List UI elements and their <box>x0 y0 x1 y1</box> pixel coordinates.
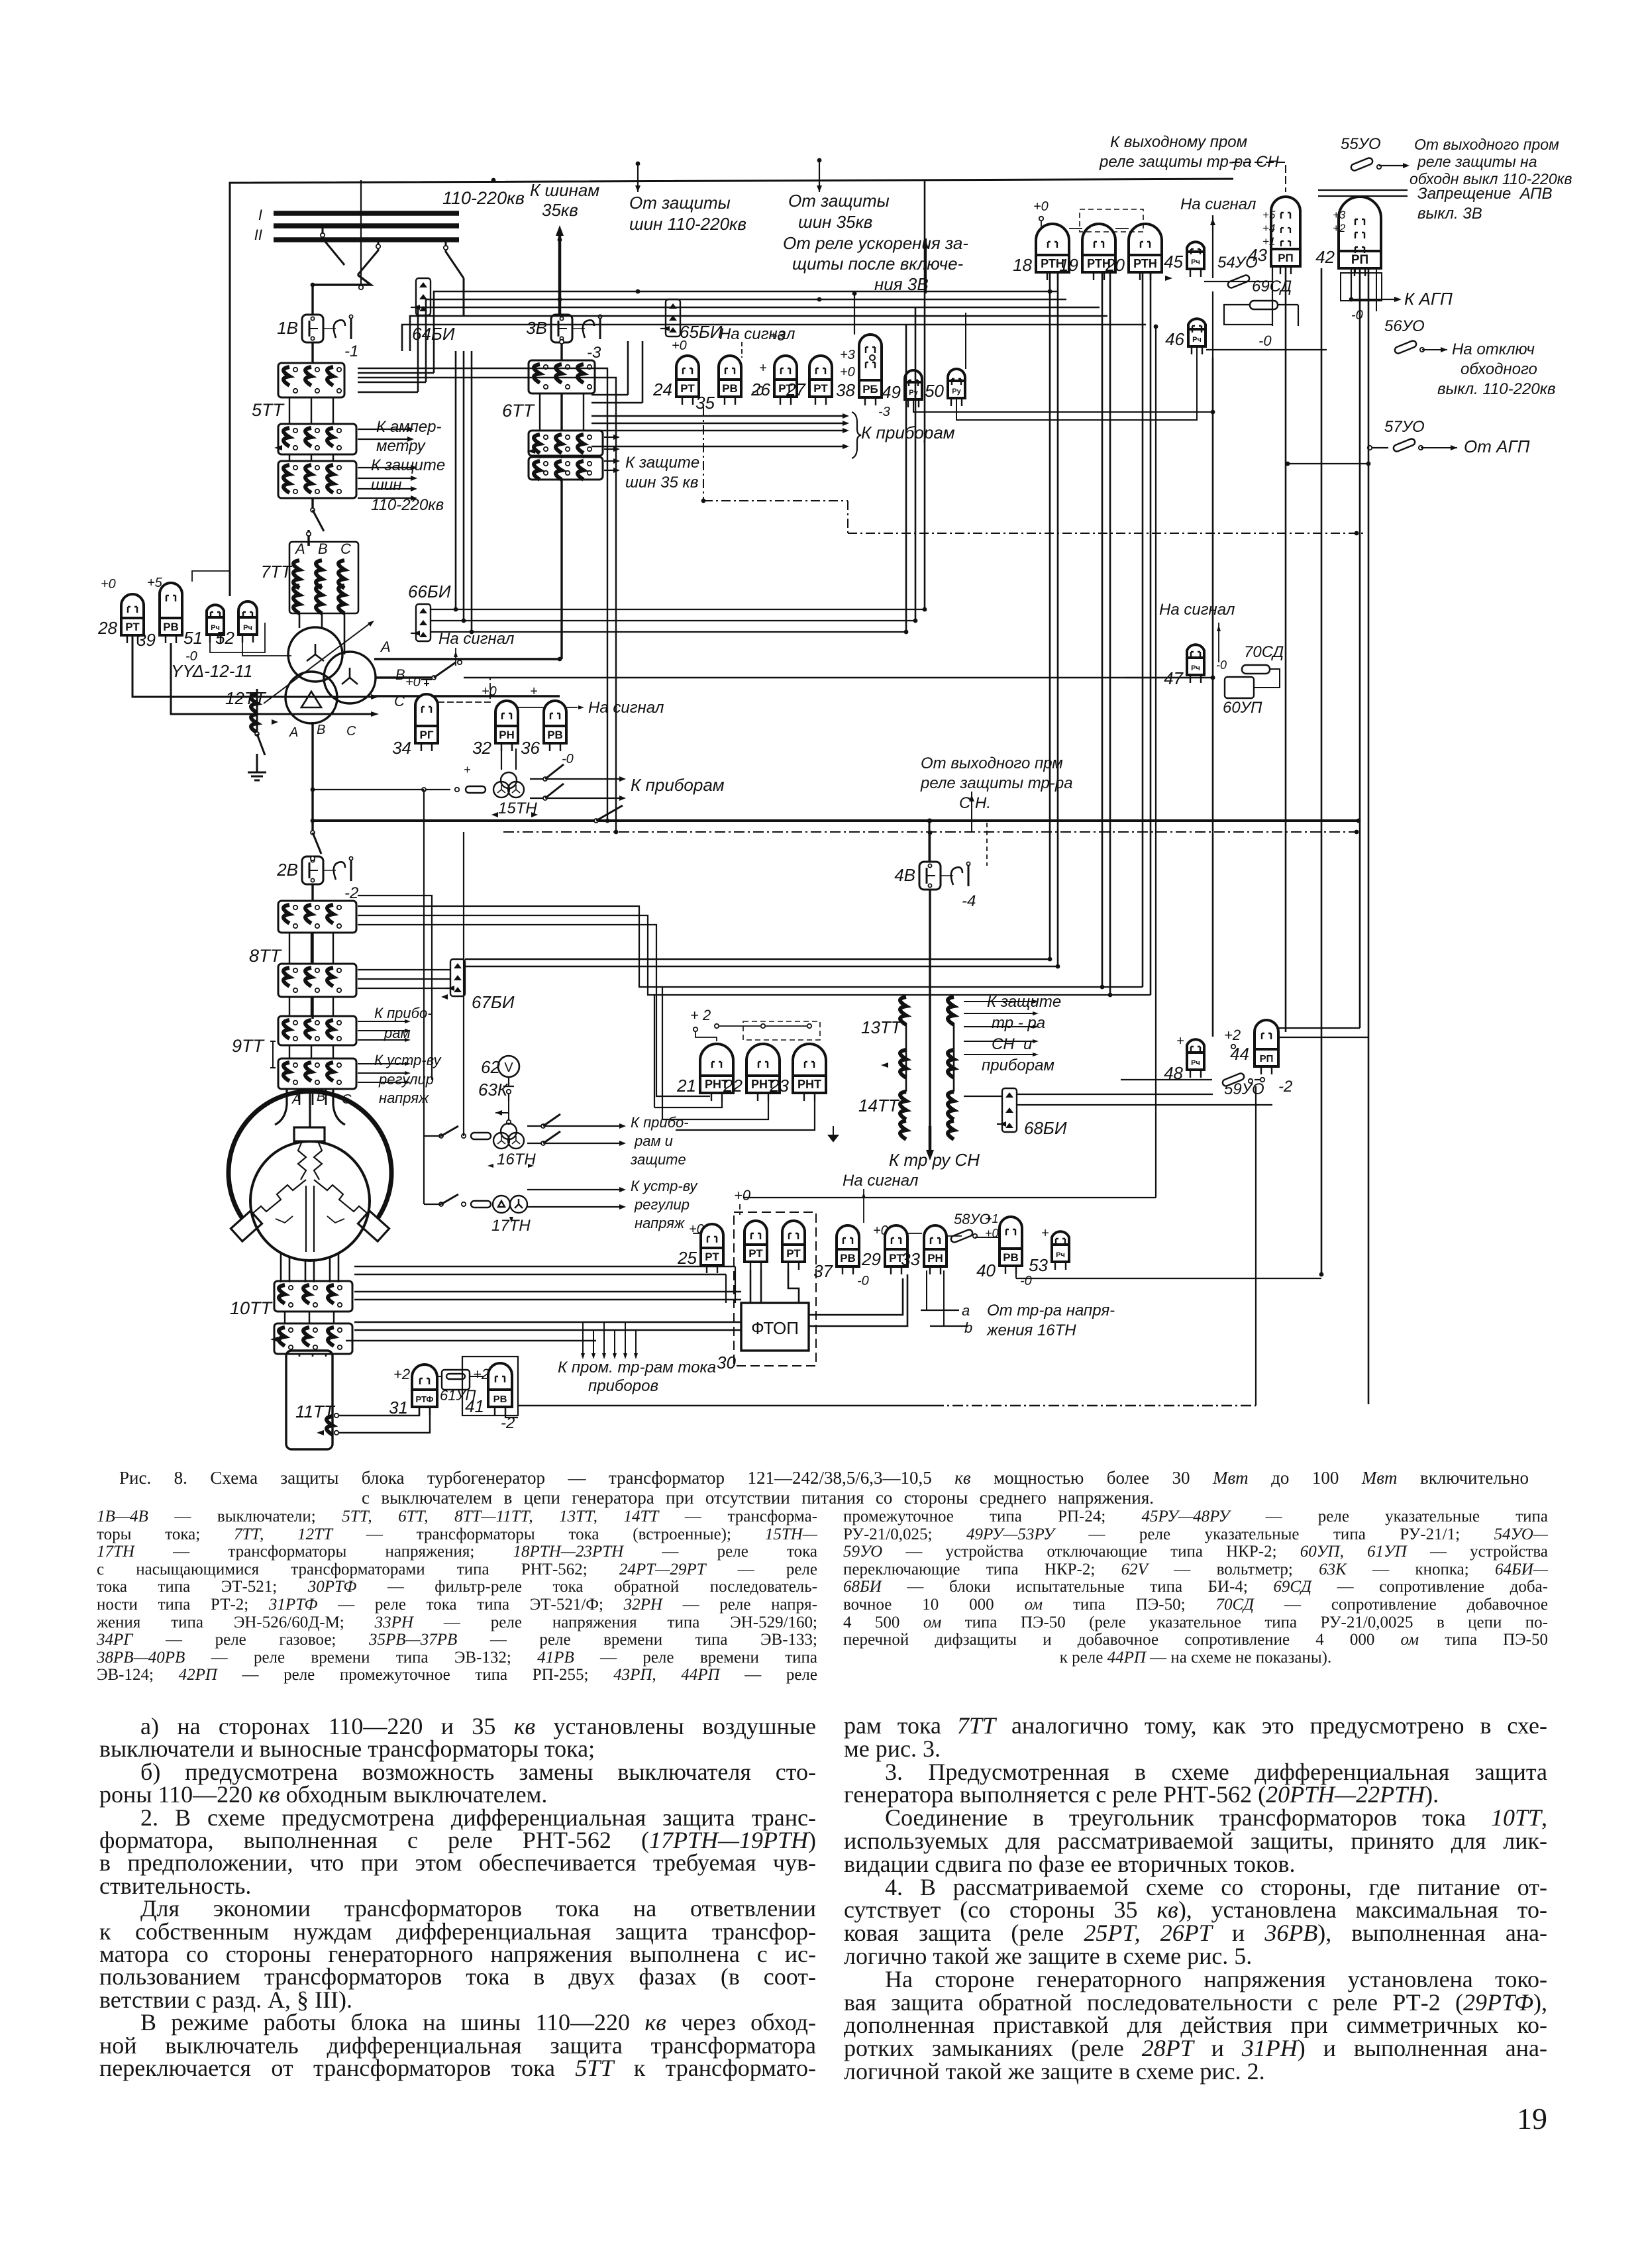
wire <box>558 233 562 316</box>
arrowhead <box>669 327 677 333</box>
wire <box>311 933 312 964</box>
arrowhead <box>619 796 626 801</box>
svg-text:шин: шин <box>371 476 401 494</box>
wire <box>1379 165 1404 166</box>
terminal <box>462 1134 466 1138</box>
CT row 5ТТ primary <box>278 363 344 397</box>
wire <box>358 1072 405 1074</box>
generator G stator <box>229 1090 391 1282</box>
svg-text:52: 52 <box>215 628 234 648</box>
arrowhead <box>1403 163 1410 168</box>
terminal <box>566 435 570 439</box>
svg-text:67БИ: 67БИ <box>472 992 515 1012</box>
arrowhead <box>495 1110 502 1115</box>
long trunk wires to RNT group <box>465 958 1050 960</box>
wire <box>583 393 584 431</box>
junction <box>817 297 822 302</box>
wire <box>1121 1079 1212 1080</box>
wire <box>402 325 1146 351</box>
wire <box>354 1291 741 1293</box>
relay РНТ22 <box>746 1044 780 1101</box>
svg-text:45: 45 <box>1164 252 1183 272</box>
wire <box>285 1080 424 1082</box>
svg-text:РВ: РВ <box>840 1252 856 1264</box>
arrowhead <box>623 1353 627 1359</box>
arrowhead <box>371 694 379 699</box>
wire <box>465 966 1058 968</box>
terminal <box>311 858 314 862</box>
wire <box>907 1233 922 1234</box>
resistor <box>471 1201 491 1208</box>
terminal <box>293 429 297 433</box>
svg-text:+0: +0 <box>405 675 421 690</box>
svg-text:+4: +4 <box>1262 222 1275 234</box>
busbar system I/II 110-220kV <box>274 211 459 216</box>
arrowhead <box>407 437 414 442</box>
junction <box>1357 819 1361 823</box>
svg-text:РТ: РТ <box>680 382 695 395</box>
wire <box>344 613 346 654</box>
svg-text:-0: -0 <box>857 1274 869 1288</box>
svg-text:19: 19 <box>1059 255 1078 275</box>
svg-text:С Н.: С Н. <box>959 794 991 812</box>
junction <box>701 499 706 503</box>
svg-text:А: А <box>380 639 391 655</box>
terminal <box>288 627 342 682</box>
wire <box>311 997 312 1016</box>
svg-text:51: 51 <box>183 628 203 648</box>
wire <box>1115 228 1129 229</box>
terminal <box>966 862 970 865</box>
arrowhead <box>613 468 620 473</box>
svg-text:РВ: РВ <box>163 621 179 633</box>
control wiring trunk bundle <box>434 291 1058 373</box>
wire <box>604 448 615 450</box>
wire <box>289 933 290 964</box>
feeder to auxiliary transformer <box>929 1126 932 1153</box>
junction <box>1319 1272 1324 1277</box>
terminal <box>349 315 352 318</box>
arrowhead <box>926 1150 934 1160</box>
wire <box>313 275 371 316</box>
svg-text:14ТТ: 14ТТ <box>858 1096 900 1115</box>
CT row 8ТТ row1 <box>278 901 356 933</box>
wire <box>915 307 917 621</box>
wire <box>929 832 931 862</box>
svg-text:+: + <box>1041 1226 1049 1241</box>
wire <box>256 754 258 763</box>
terminal <box>313 1303 317 1307</box>
svg-text:К приборам: К приборам <box>861 423 955 442</box>
wires relay cluster to 12TT <box>132 635 372 697</box>
svg-text:реле защиты тр-ра СН: реле защиты тр-ра СН <box>1099 153 1280 171</box>
arrowhead <box>454 651 458 657</box>
wire <box>1017 1094 1213 1095</box>
terminal <box>1039 217 1043 221</box>
svg-text:РТ: РТ <box>786 1247 801 1260</box>
svg-text:Рч: Рч <box>1056 1251 1065 1259</box>
terminal <box>337 968 341 972</box>
wire <box>676 1101 815 1130</box>
terminal <box>761 1024 765 1028</box>
terminal <box>338 1345 342 1349</box>
dash-dot section divider <box>703 407 704 501</box>
wire <box>971 792 972 832</box>
relay Рч47 <box>1187 644 1204 683</box>
test block 64БИ <box>416 278 431 315</box>
wire <box>1355 268 1356 273</box>
arrowhead <box>405 1071 411 1075</box>
arrowhead <box>419 282 427 287</box>
junction <box>1355 830 1359 835</box>
svg-text:I: I <box>258 207 262 223</box>
svg-text:СН и: СН и <box>992 1035 1032 1053</box>
svg-text:30: 30 <box>717 1353 736 1372</box>
svg-text:К шинам: К шинам <box>530 180 599 200</box>
box <box>358 1211 389 1241</box>
wire <box>1150 272 1152 995</box>
terminal <box>588 365 591 369</box>
terminal <box>285 672 337 723</box>
svg-text:От тр-ра напря-: От тр-ра напря- <box>987 1302 1115 1319</box>
wire <box>517 707 545 708</box>
arrowhead <box>669 315 677 321</box>
terminal <box>1260 1078 1264 1082</box>
RNT bottom rails <box>654 1101 722 1108</box>
svg-text:b: b <box>964 1319 972 1336</box>
wire <box>358 378 616 832</box>
wire <box>591 402 642 404</box>
wire <box>358 978 450 980</box>
13TT outputs <box>964 1001 1033 1002</box>
arrowhead <box>613 435 620 440</box>
wire <box>975 1237 1000 1238</box>
terminal <box>541 1124 545 1128</box>
page number <box>1517 2104 1547 2134</box>
junction <box>311 819 315 823</box>
box <box>462 1357 518 1416</box>
wire <box>854 293 855 335</box>
wire <box>424 1135 441 1137</box>
svg-text:+1: +1 <box>985 1212 999 1225</box>
wire <box>299 1354 301 1357</box>
wire <box>284 1312 285 1323</box>
terminal <box>560 340 564 344</box>
breaker 4В <box>919 862 941 890</box>
wire <box>410 316 1107 351</box>
svg-text:43: 43 <box>1248 245 1267 265</box>
junction <box>928 831 933 835</box>
svg-text:РП: РП <box>1351 253 1368 267</box>
wire <box>591 430 843 431</box>
svg-text:20: 20 <box>1105 255 1125 275</box>
wire <box>848 533 1364 534</box>
svg-text:6ТТ: 6ТТ <box>502 401 536 421</box>
generator stator windings <box>298 1141 322 1180</box>
wire <box>527 1189 619 1190</box>
legend left column <box>97 1508 817 1525</box>
junction <box>1108 993 1113 998</box>
svg-text:26: 26 <box>750 380 770 399</box>
svg-text:+3: +3 <box>840 348 855 362</box>
wire <box>495 1112 509 1113</box>
svg-text:реле защиты на: реле защиты на <box>1417 153 1537 170</box>
junction <box>558 657 562 662</box>
junction <box>605 819 610 823</box>
svg-text:К пром. тр-рам тока: К пром. тр-рам тока <box>558 1359 716 1376</box>
relay Рч48 <box>1187 1039 1204 1078</box>
terminal <box>337 905 341 909</box>
svg-text:+0: +0 <box>873 1223 888 1238</box>
wire <box>358 969 450 970</box>
wire <box>418 307 1100 392</box>
terminal <box>458 660 462 664</box>
svg-text:23: 23 <box>769 1076 789 1096</box>
wire <box>1109 272 1111 995</box>
svg-text:110-220кв: 110-220кв <box>371 496 444 514</box>
arrowhead <box>669 303 677 309</box>
wire <box>321 613 323 629</box>
svg-text:Запрещение АПВ: Запрещение АПВ <box>1417 185 1553 203</box>
terminal <box>293 1080 297 1084</box>
terminal <box>315 968 319 972</box>
relay РТФ31 <box>412 1365 437 1415</box>
wire <box>354 1321 741 1323</box>
terminal <box>544 435 548 439</box>
junction <box>614 830 619 835</box>
body text right column <box>844 1714 1547 1737</box>
svg-text:РП: РП <box>1278 252 1294 264</box>
terminal <box>560 336 563 340</box>
svg-text:К выходному пром: К выходному пром <box>1110 133 1247 151</box>
wire <box>431 609 925 610</box>
terminal <box>560 317 563 320</box>
svg-text:38: 38 <box>836 380 855 400</box>
wire <box>358 915 648 958</box>
wire <box>274 237 459 242</box>
arrowhead <box>843 413 849 419</box>
relay Ру49 <box>905 370 922 407</box>
relay РТ24 <box>676 356 699 405</box>
terminal <box>293 924 297 928</box>
svg-text:-4: -4 <box>962 892 976 910</box>
svg-text:-0: -0 <box>1351 308 1363 323</box>
arrowhead <box>531 812 538 817</box>
device 54УО <box>1227 274 1250 289</box>
wire <box>1321 268 1323 1274</box>
svg-text:РТ: РТ <box>748 1247 763 1260</box>
CT 7TT (built-in) <box>289 542 358 613</box>
terminal <box>321 233 325 237</box>
wire <box>464 677 1213 679</box>
junction <box>558 297 562 302</box>
CT row 10ТТ row2 <box>274 1323 352 1354</box>
body text left column <box>99 1714 816 1738</box>
breaker 3В <box>551 315 572 342</box>
relay РТН19 <box>1082 224 1115 280</box>
arrowhead <box>419 294 427 299</box>
relay РВ41 <box>488 1363 512 1415</box>
wire <box>593 1330 594 1355</box>
CT row 5ТТ secondary 2 <box>278 461 356 498</box>
terminal <box>337 389 341 393</box>
top protection source labels <box>637 162 639 192</box>
wire <box>431 631 906 633</box>
svg-text:шин 110-220кв: шин 110-220кв <box>629 214 746 234</box>
generator terminal box <box>294 1127 325 1141</box>
arrowhead <box>619 776 626 782</box>
svg-text:На сигнал: На сигнал <box>843 1172 919 1190</box>
wire <box>325 1354 327 1357</box>
relay Рч45 <box>1187 242 1204 277</box>
arrowhead <box>602 1353 606 1359</box>
arrowhead <box>923 241 929 248</box>
arrowhead <box>411 476 417 481</box>
arrowhead <box>843 428 849 433</box>
wire <box>358 1082 405 1083</box>
arrowhead <box>419 632 427 637</box>
svg-text:-0: -0 <box>1258 333 1272 349</box>
arrowhead <box>270 1337 278 1342</box>
16TN outputs <box>527 1125 619 1127</box>
relay РТН20 <box>1129 224 1162 280</box>
arrowhead <box>371 711 379 717</box>
svg-text:ФТОП: ФТОП <box>751 1318 799 1338</box>
terminal <box>337 1021 341 1025</box>
relay row output wires to devices <box>591 415 843 417</box>
terminal <box>315 490 319 493</box>
svg-text:+0: +0 <box>482 684 497 699</box>
wire <box>662 1101 768 1119</box>
svg-text:+0: +0 <box>689 1222 704 1237</box>
arrowhead <box>1005 1123 1013 1128</box>
svg-text:РНТ: РНТ <box>797 1078 821 1091</box>
svg-text:22: 22 <box>723 1076 743 1096</box>
junction <box>923 607 927 612</box>
relay РВ40 <box>1000 1217 1022 1274</box>
junction <box>1366 462 1371 466</box>
device 59УО <box>1221 1072 1245 1087</box>
wire <box>358 1030 405 1031</box>
terminal <box>293 968 297 972</box>
terminal <box>293 368 297 372</box>
wire <box>964 1041 1033 1042</box>
terminal <box>293 1037 297 1041</box>
terminal <box>293 490 297 493</box>
wire <box>847 501 848 533</box>
wire <box>943 1270 945 1326</box>
CT row 8ТТ row2 <box>278 964 356 997</box>
CT row 6ТТ secondary 1 <box>529 431 603 456</box>
wire <box>358 1063 405 1064</box>
-0 rail from relay row to vertical 1995 <box>1015 1266 1017 1278</box>
svg-text:РТ: РТ <box>813 382 828 395</box>
wire <box>333 1312 334 1323</box>
svg-text:РП: РП <box>1260 1053 1274 1064</box>
wire <box>1278 1027 1360 1029</box>
arrowhead <box>509 1217 513 1223</box>
wire <box>741 342 743 358</box>
wire <box>539 456 540 458</box>
terminal <box>337 368 341 372</box>
svg-text:+1: +1 <box>1262 235 1275 248</box>
svg-text:В: В <box>317 723 325 737</box>
svg-text:Рч: Рч <box>1191 258 1200 266</box>
wire <box>358 497 411 499</box>
svg-text:напряж: напряж <box>379 1090 429 1106</box>
long vertical control wires <box>1212 291 1213 358</box>
wire <box>625 1322 626 1355</box>
wire <box>648 958 1151 995</box>
wire <box>603 1322 605 1355</box>
terminal <box>928 884 931 887</box>
terminal <box>508 1133 524 1149</box>
arrowhead <box>411 486 417 491</box>
svg-text:42: 42 <box>1315 247 1335 267</box>
terminal <box>588 471 591 475</box>
arrowhead <box>1000 1121 1006 1127</box>
wire <box>333 997 334 1016</box>
terminal <box>293 905 297 909</box>
wire <box>1212 358 1214 1037</box>
terminal <box>315 988 319 992</box>
wire <box>375 676 432 678</box>
wire <box>656 958 710 1096</box>
wire <box>735 1266 736 1303</box>
wire <box>964 1054 1033 1055</box>
vertical line from top border to breaker 1B coil <box>360 180 362 285</box>
wire <box>1069 228 1082 229</box>
terminal <box>311 878 314 882</box>
wire <box>725 1274 727 1303</box>
junction <box>1349 297 1354 302</box>
wire <box>515 748 517 770</box>
relay РВ35 <box>719 356 741 405</box>
wire <box>929 890 931 994</box>
9TT outputs <box>358 1021 405 1022</box>
legend right column <box>843 1508 1548 1525</box>
terminal <box>337 988 341 992</box>
junction <box>928 819 933 823</box>
wire <box>933 1405 1256 1406</box>
11TT box <box>286 1351 333 1449</box>
wire <box>530 798 619 799</box>
wire <box>518 1405 933 1406</box>
terminal <box>588 435 591 439</box>
wire <box>311 722 313 831</box>
terminal <box>334 1414 338 1417</box>
wire <box>426 299 1066 382</box>
junction <box>454 607 458 612</box>
wire <box>333 397 334 424</box>
terminal <box>315 1021 319 1025</box>
wire <box>760 1270 762 1303</box>
box <box>1341 273 1382 301</box>
junction <box>470 630 474 635</box>
terminal <box>313 1328 317 1332</box>
leads to instrument CTs <box>582 1322 584 1355</box>
arrowhead <box>454 987 462 992</box>
relay РТ26 <box>774 356 797 405</box>
svg-text:На сигнал: На сигнал <box>588 699 664 717</box>
svg-text:РВ: РВ <box>1003 1251 1019 1264</box>
terminal <box>289 1328 293 1332</box>
wire <box>313 789 424 790</box>
device 57УО <box>1392 438 1415 452</box>
test block 66БИ <box>416 604 431 641</box>
svg-text:РТ: РТ <box>705 1251 719 1263</box>
svg-text:9ТТ: 9ТТ <box>232 1036 266 1056</box>
